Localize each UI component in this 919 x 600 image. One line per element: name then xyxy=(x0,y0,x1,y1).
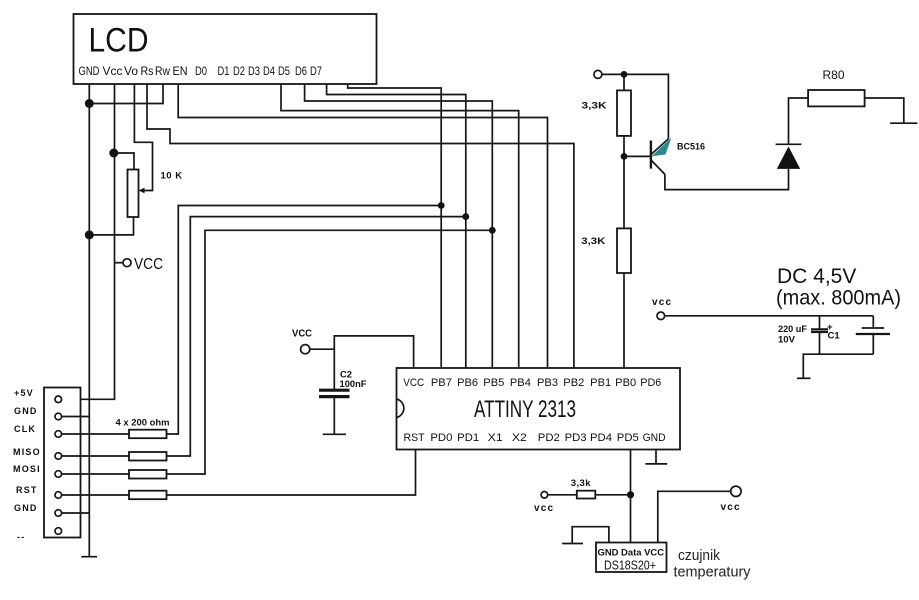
svg-text:MOSI: MOSI xyxy=(13,464,41,474)
wire MOSI to PB5 junction xyxy=(167,230,493,474)
terminal vcc (sensor) xyxy=(721,486,742,513)
svg-text:PB4: PB4 xyxy=(510,377,531,389)
svg-text:VCC: VCC xyxy=(292,329,312,340)
svg-text:CLK: CLK xyxy=(14,424,36,434)
svg-text:Vcc: Vcc xyxy=(103,64,123,78)
wire PB0 to base resistor xyxy=(623,273,625,368)
svg-text:PB0: PB0 xyxy=(615,377,636,389)
resistor R80 xyxy=(808,68,865,106)
ATTINY bottom pin labels xyxy=(404,432,666,444)
svg-text:(max. 800mA): (max. 800mA) xyxy=(776,287,901,310)
node pot-bottom GND junction xyxy=(85,230,94,239)
resistor MISO 200ohm xyxy=(62,452,167,461)
svg-text:PB1: PB1 xyxy=(590,377,611,389)
svg-text:LCD: LCD xyxy=(89,22,149,60)
svg-text:X1: X1 xyxy=(488,432,503,444)
connector pin circles xyxy=(55,396,62,534)
wire MISO to PB6 junction xyxy=(167,217,466,456)
svg-text:D3: D3 xyxy=(248,64,260,78)
svg-text:VCC: VCC xyxy=(134,256,163,273)
capacitor C1 220uF xyxy=(778,316,840,354)
battery B1 DC source xyxy=(856,316,890,354)
resistor R 3,3k pull-up xyxy=(548,478,631,499)
wire sensor GND pin to ground xyxy=(572,527,609,544)
wire VCC rail to emitter xyxy=(602,74,669,138)
svg-text:100nF: 100nF xyxy=(340,379,367,390)
wire D5 to PB5 xyxy=(305,84,493,368)
wire RST to ATTINY RST pin xyxy=(167,450,416,496)
ground (bottom of GND rail) xyxy=(81,556,97,558)
svg-text:GND: GND xyxy=(14,406,38,416)
wire R80 to ground xyxy=(865,98,904,123)
svg-text:PB6: PB6 xyxy=(457,377,478,389)
wire LED to R80 xyxy=(789,98,809,144)
ground (sensor) xyxy=(562,543,583,545)
wire supply bottom rail to ground xyxy=(803,354,873,378)
wire ATTINY GND pin to ground xyxy=(655,450,657,464)
wire Vcc vertical to +5V pin xyxy=(62,84,115,399)
node MISO-PB6 junction xyxy=(462,213,469,220)
node CLK-PB7 junction xyxy=(438,202,445,209)
svg-text:PB2: PB2 xyxy=(563,377,584,389)
wire D6 to PB6 xyxy=(327,84,466,368)
svg-text:10 K: 10 K xyxy=(161,171,183,182)
wire Vo to pot wiper xyxy=(134,84,152,191)
wire D7 to PB7 xyxy=(348,84,442,368)
wire LCD GND vertical to ground xyxy=(88,84,90,557)
svg-text:DC 4,5V: DC 4,5V xyxy=(777,265,856,288)
svg-text:Rw: Rw xyxy=(155,64,170,78)
wire Rs to PB2 xyxy=(147,84,574,368)
svg-text:vcc: vcc xyxy=(721,502,741,513)
node MOSI-PB5 junction xyxy=(489,227,496,234)
svg-text:Rs: Rs xyxy=(141,64,154,78)
svg-text:D1: D1 xyxy=(218,64,230,78)
svg-text:PD4: PD4 xyxy=(590,432,612,444)
svg-text:C1: C1 xyxy=(828,331,841,342)
svg-text:3,3K: 3,3K xyxy=(582,101,607,112)
resistor RST 200ohm xyxy=(62,491,167,500)
svg-text:PB5: PB5 xyxy=(483,377,504,389)
svg-text:10V: 10V xyxy=(778,335,796,346)
terminal VCC (LCD area) xyxy=(115,256,164,273)
pot wiper arrow xyxy=(139,188,145,194)
svg-text:VCC: VCC xyxy=(403,377,424,389)
ground (C2) xyxy=(323,433,346,435)
svg-text:BC516: BC516 xyxy=(677,142,705,152)
svg-text:D7: D7 xyxy=(310,64,322,78)
ATTINY top pin labels xyxy=(403,377,661,389)
svg-text:3,3K: 3,3K xyxy=(581,236,605,247)
svg-text:PD0: PD0 xyxy=(430,432,452,444)
svg-text:GND: GND xyxy=(643,432,666,444)
LCD pin labels xyxy=(79,64,323,78)
resistor R 3,3K (base, to PB0) xyxy=(581,156,631,273)
wire GND pin2 xyxy=(62,416,90,418)
node VCC rail junction xyxy=(621,71,628,78)
terminal vcc (supply) xyxy=(652,297,672,320)
resistor MOSI 200ohm xyxy=(62,470,167,479)
resistor R 3,3K (pull-up) xyxy=(582,74,632,135)
LED D1 xyxy=(776,144,802,169)
connector pin labels xyxy=(13,388,41,542)
svg-text:PD1: PD1 xyxy=(457,432,479,444)
wire C2 to ground xyxy=(333,398,335,435)
wire collector to LED xyxy=(665,169,789,190)
wire sensor VCC pin xyxy=(658,491,731,542)
wire D4 to PB4 xyxy=(281,84,519,368)
svg-text:4 x 200 ohm: 4 x 200 ohm xyxy=(116,418,170,429)
terminal VCC (C2 area) xyxy=(292,329,312,354)
ground (R80) xyxy=(890,122,917,124)
svg-text:PD3: PD3 xyxy=(565,432,587,444)
node GND-Rw junction xyxy=(85,99,94,108)
IC U1 ATTINY 2313 box xyxy=(397,368,681,450)
svg-text:+5V: +5V xyxy=(14,388,34,398)
node Vcc pot-top junction xyxy=(109,149,118,158)
svg-text:--: -- xyxy=(17,532,25,542)
svg-text:ATTINY 2313: ATTINY 2313 xyxy=(474,396,576,423)
wire EN to PB3 xyxy=(178,84,547,368)
resistor CLK 200ohm xyxy=(62,430,167,439)
wire GND pin7 xyxy=(62,512,90,514)
svg-text:RST: RST xyxy=(16,485,38,495)
potentiometer R 10K body xyxy=(128,170,139,218)
svg-text:PB7: PB7 xyxy=(431,377,452,389)
wire VCC to ATTINY VCC pin xyxy=(310,348,335,350)
ground (supply) xyxy=(797,377,811,379)
svg-text:D2: D2 xyxy=(233,64,245,78)
LCD module box xyxy=(74,14,377,84)
transistor Q1 BC516 xyxy=(651,138,705,175)
svg-text:R80: R80 xyxy=(823,68,845,82)
wire supply rail xyxy=(665,315,874,317)
svg-text:GND: GND xyxy=(14,503,38,513)
node PD5 pull-up junction xyxy=(627,491,634,498)
svg-text:czujnik: czujnik xyxy=(678,547,720,564)
svg-text:Vo: Vo xyxy=(124,64,138,78)
svg-text:PD2: PD2 xyxy=(538,432,560,444)
svg-text:D4: D4 xyxy=(263,64,275,78)
svg-text:temperatury: temperatury xyxy=(674,564,751,581)
svg-text:GND Data VCC: GND Data VCC xyxy=(598,548,665,558)
wire pot top to Vcc xyxy=(115,153,135,170)
svg-text:X2: X2 xyxy=(512,432,527,444)
svg-text:EN: EN xyxy=(173,64,188,78)
svg-text:3,3k: 3,3k xyxy=(571,478,591,489)
node base junction xyxy=(621,153,628,160)
label czujnik temperatury xyxy=(674,547,751,581)
svg-text:RST: RST xyxy=(404,432,425,444)
wire base node to transistor base xyxy=(624,155,650,157)
svg-text:PD5: PD5 xyxy=(617,432,639,444)
svg-text:MISO: MISO xyxy=(13,447,41,457)
svg-text:DS18S20+: DS18S20+ xyxy=(604,559,656,573)
svg-text:vcc: vcc xyxy=(534,503,554,514)
svg-text:D5: D5 xyxy=(278,64,290,78)
wire resistor to base node xyxy=(623,136,625,157)
wire CLK to PB7 junction xyxy=(167,206,442,435)
svg-text:PD6: PD6 xyxy=(640,377,661,389)
svg-text:PB3: PB3 xyxy=(537,377,558,389)
capacitor C2 100nF xyxy=(319,370,367,397)
ground (ATTINY) xyxy=(645,463,667,465)
svg-text:GND: GND xyxy=(79,64,100,78)
svg-text:vcc: vcc xyxy=(652,297,672,308)
wire PD5 to DS18S20 Data xyxy=(630,450,632,543)
wire pot bottom to GND xyxy=(89,217,133,235)
terminal VCC (transistor rail) xyxy=(594,70,602,78)
ISP connector box xyxy=(44,388,81,538)
terminal vcc (pull-up) xyxy=(534,492,554,515)
svg-text:D6: D6 xyxy=(295,64,307,78)
svg-text:D0: D0 xyxy=(195,64,207,78)
sensor U2 DS18S20 box xyxy=(596,543,667,573)
svg-text:220 uF: 220 uF xyxy=(778,324,807,335)
wire Rw to GND xyxy=(89,84,163,104)
